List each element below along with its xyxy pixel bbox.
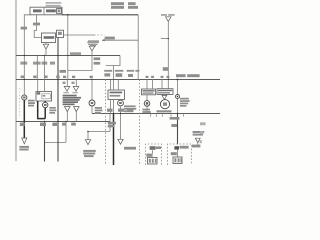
- antenna label: [161, 14, 175, 16]
- wire X24 to motor circle: [22, 95, 27, 100]
- label BLU: [163, 67, 168, 71]
- label faint right margin c: [200, 140, 202, 143]
- wire antenna drop X169: [167, 22, 169, 89]
- ignition switch box S1: [108, 90, 125, 100]
- label washer motor M1: [142, 109, 150, 113]
- label washer motor: [28, 100, 35, 107]
- connector ticks below bus Y113: [150, 114, 184, 116]
- dashed harness edge X19: [19, 88, 21, 118]
- label washer motor name: [157, 110, 172, 112]
- wire stub X67 top: [66, 80, 68, 87]
- label connector C2: [87, 42, 99, 46]
- wire X37 mid: [36, 56, 38, 80]
- motor circle M1: [144, 101, 150, 107]
- node junctions bus Y121: [24, 121, 67, 122]
- washer switch box S3: [157, 89, 173, 95]
- label above Y40: [105, 37, 115, 40]
- labels wire ticks above moonroof triangles: [63, 82, 75, 84]
- arrow Y35 right: [97, 34, 105, 36]
- dashed harness edge X139: [139, 80, 141, 166]
- wire X120 upper: [120, 99, 122, 102]
- label faint right margin b: [200, 131, 203, 134]
- wire X45 bold up to circle: [44, 108, 46, 119]
- label right of X120 triangle: [124, 147, 136, 150]
- wire pin X37 up: [37, 80, 39, 92]
- node junction X177 bus: [177, 79, 179, 81]
- label unit name above bus right: [176, 74, 200, 77]
- wire X67 drop: [67, 15, 69, 80]
- antenna connector triangle: [166, 17, 172, 22]
- wire return Y40: [103, 39, 139, 41]
- wire circle C2 stub: [44, 101, 46, 102]
- node junction X67/Y14: [67, 14, 69, 16]
- wire pin X113 down: [113, 100, 115, 114]
- label GRN/BLK: [108, 122, 116, 128]
- connector triangle X120: [118, 139, 123, 144]
- label motor symbol C1: [23, 97, 26, 99]
- label fuse 1: [33, 9, 42, 12]
- wire X44 ground run: [44, 122, 46, 162]
- wire X92 to circle: [91, 80, 93, 101]
- dashed ground box left: [146, 144, 162, 165]
- label right box lower: [171, 152, 177, 155]
- moon roof connector triangle top A: [64, 86, 70, 91]
- node junctions on bus Y55: [24, 55, 69, 56]
- wire fuse drop X36 jog: [34, 15, 41, 38]
- wire stub tick on antenna wire: [161, 38, 169, 40]
- wire M stub: [146, 95, 148, 101]
- wire branch Y35: [64, 34, 96, 36]
- wire X177 lower: [177, 114, 179, 145]
- component circle C2: [43, 102, 48, 107]
- dashed ground box right: [168, 144, 192, 165]
- wire bus Y55: [16, 55, 120, 57]
- wire X92 upper: [91, 51, 93, 71]
- wire X177 upper: [177, 80, 179, 95]
- label inside M3: [163, 102, 167, 105]
- wire pin X113 up: [113, 80, 115, 91]
- label right of C3: [95, 107, 103, 114]
- wire segment Y131: [88, 131, 110, 133]
- wire pin X113 from corner: [113, 66, 115, 80]
- connector ticks above bus Y79: [21, 76, 93, 79]
- label faint right margin a: [200, 122, 206, 125]
- wire pin X110 up: [110, 80, 112, 91]
- frame left border: [15, 0, 17, 161]
- washer motor circle M3: [160, 100, 169, 109]
- connector triangle washer: [162, 95, 167, 99]
- label wire color WHT/BLU left: [21, 27, 27, 30]
- moon roof connector triangle bottom A: [65, 107, 71, 112]
- wire X197 stub: [197, 143, 199, 148]
- wire stub X76 top: [75, 80, 77, 87]
- label in left box: [156, 146, 161, 149]
- node junctions bus Y113: [113, 113, 179, 115]
- arrow Y40 left: [102, 39, 105, 41]
- wire X120 lower: [120, 114, 122, 140]
- label fuse 2: [46, 9, 56, 12]
- dashed harness edge X105: [105, 80, 107, 166]
- wire pin X118 up: [117, 80, 119, 91]
- wire X120 mid: [120, 106, 122, 114]
- label fuse box title: [46, 2, 62, 6]
- label BLK X24: [20, 123, 25, 126]
- wire bus Y113: [92, 113, 220, 115]
- wire X113 bold ground run: [113, 114, 115, 166]
- label unit 4WD right: [193, 131, 205, 136]
- labels connector row Y70 dashes: [104, 70, 139, 72]
- label symbol C4: [119, 102, 122, 104]
- wire X58 long run: [57, 38, 59, 162]
- wire X139 down: [137, 15, 139, 80]
- connector triangle X24 ground: [22, 138, 27, 144]
- label wire WHT/GRN b: [94, 62, 101, 65]
- labels above bus Y113: [107, 109, 134, 112]
- wire branch Y70: [68, 70, 92, 72]
- node junctions bus Y79: [24, 79, 169, 80]
- wire stub in left box: [152, 150, 154, 153]
- wire X37 bold down: [37, 101, 39, 119]
- wire X46 to bus: [45, 49, 47, 56]
- label 4WD block: [180, 98, 190, 107]
- wire ladder X110: [109, 114, 111, 132]
- moon roof connector triangle bottom B: [74, 107, 80, 112]
- label BLK X62: [62, 123, 66, 126]
- relay K1: [42, 33, 56, 43]
- label relay K1: [44, 36, 55, 39]
- connector triangle X197: [195, 138, 200, 142]
- label BLK X71: [71, 123, 76, 126]
- component circle C4: [118, 100, 124, 106]
- top right label row2: [111, 6, 138, 9]
- labels pin ticks above bus right: [146, 76, 170, 78]
- label BLK X177: [171, 124, 177, 127]
- connector triangle C2 top: [89, 46, 94, 51]
- label left box lower: [146, 154, 152, 157]
- wire relay output stub: [45, 43, 47, 45]
- label in right box: [180, 146, 189, 149]
- label below bus Y113: [170, 117, 180, 120]
- node junction antenna tick: [168, 38, 169, 39]
- wire X67 bottom: [66, 111, 68, 121]
- wiper motor box M2: [36, 92, 52, 102]
- wire ground bus Y121: [16, 121, 110, 123]
- moon roof connector triangle top B: [73, 86, 79, 91]
- label symbol C2: [44, 104, 47, 106]
- labels wire colors above bus Y79 left: [20, 62, 55, 65]
- labels pins Y73: [104, 73, 133, 77]
- connector box right: [173, 157, 182, 164]
- wire X177 mid: [177, 99, 179, 114]
- wire switch pins up: [147, 80, 162, 90]
- wire X44 mid: [43, 56, 45, 80]
- label BLK X53: [52, 123, 57, 126]
- connector triangle C101: [43, 44, 48, 49]
- component blob in right box: [174, 146, 179, 149]
- connector triangle X88 ground: [85, 140, 90, 145]
- label 14 WHT/BLU: [60, 70, 66, 73]
- wire X24 bold ground: [23, 100, 25, 138]
- label right of C4: [124, 105, 136, 112]
- label BLK X44: [40, 123, 46, 126]
- grommet circle J1: [176, 95, 180, 99]
- label BLK/RED right: [192, 145, 201, 148]
- label moon roof control unit: [63, 95, 81, 106]
- fuse box U1: [30, 7, 62, 15]
- label wire color WHT/BLU: [33, 23, 40, 26]
- wire washer stub: [163, 94, 165, 97]
- wiper switch box S2: [142, 89, 156, 95]
- label pin marks under triangles: [63, 92, 77, 93]
- label intermittent relay: [49, 107, 56, 114]
- wire fuse left drop X24: [24, 15, 30, 56]
- connector box left: [148, 158, 158, 165]
- label ground G101: [19, 146, 29, 151]
- component blob in left box: [150, 146, 156, 150]
- wire boundary bus Y79: [16, 79, 220, 81]
- wire X76 bottom: [75, 111, 77, 121]
- wire corner X120: [106, 56, 120, 66]
- label symbol C3: [91, 102, 94, 104]
- label wire color on bus Y55: [70, 52, 81, 55]
- wire M down: [146, 106, 148, 113]
- label ground X88: [83, 150, 96, 157]
- wire feed Y14: [62, 14, 138, 16]
- top right label row1: [111, 2, 136, 5]
- wire X88 drop: [87, 132, 89, 140]
- inline fuse box F2: [57, 30, 64, 37]
- wire L-segment Y142: [45, 122, 67, 143]
- component circle C3: [89, 100, 95, 106]
- label M1 letter: [146, 102, 148, 104]
- wire pin X110 down: [110, 100, 112, 114]
- wire pin X44 up: [44, 80, 46, 92]
- node junction X88: [87, 131, 89, 133]
- label under Y35 arrow: [88, 40, 99, 46]
- wire bold U bottom: [37, 118, 45, 120]
- wire X24 mid: [23, 56, 25, 95]
- wire X92 lower: [91, 106, 93, 114]
- label wire WHT/GRN a: [94, 57, 101, 60]
- wire X177 in box: [177, 150, 179, 157]
